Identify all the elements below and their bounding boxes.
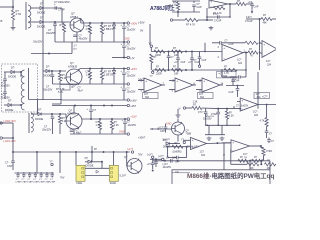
svg-text:33u/25V: 33u/25V bbox=[42, 129, 52, 132]
svg-text:10u/25V: 10u/25V bbox=[163, 167, 172, 169]
wire D2 to Q1 bbox=[43, 21, 70, 23]
svg-text:(+)Y?: (+)Y? bbox=[158, 156, 164, 158]
svg-text:?0V: ?0V bbox=[60, 176, 65, 179]
junction br bbox=[260, 163, 262, 165]
junction D6 out a bbox=[51, 70, 53, 72]
capacitor bank C17 bbox=[33, 172, 39, 183]
svg-text:C?0R: C?0R bbox=[266, 151, 272, 153]
capacitor C24 CAP top bbox=[220, 40, 234, 46]
junction bus3 a bbox=[90, 118, 92, 120]
junction bus2 c bbox=[113, 68, 115, 70]
svg-text:DIODE: DIODE bbox=[37, 10, 45, 14]
terminal -30V bottom bbox=[0, 137, 16, 143]
capacitor C23 CAP bbox=[188, 51, 200, 72]
wire Q5 collector bbox=[177, 119, 179, 123]
wire T3 tap bbox=[31, 113, 38, 115]
svg-text:C?AP: C?AP bbox=[211, 113, 217, 116]
svg-text:DIODE: DIODE bbox=[86, 165, 94, 168]
capacitor bank C15 bbox=[21, 172, 27, 183]
transistor Q2 A788J bbox=[66, 61, 82, 85]
resistor R23 1.3K bbox=[186, 101, 202, 110]
resistor R19 10R bbox=[172, 65, 183, 75]
wire U9 out bbox=[250, 145, 263, 147]
svg-text:+: + bbox=[203, 79, 205, 83]
svg-text:DIODE: DIODE bbox=[5, 108, 13, 112]
resistor R28 10K bbox=[247, 161, 259, 170]
dashed module box 1 bbox=[2, 64, 38, 112]
feedback left bbox=[206, 8, 208, 17]
wire long right vertical bbox=[257, 72, 259, 109]
svg-text:B: B bbox=[1, 19, 3, 23]
wire feedback bottom bbox=[207, 16, 230, 18]
svg-text:+: + bbox=[176, 79, 178, 83]
resistor R26 100R bbox=[172, 143, 183, 153]
resistor R30 bbox=[238, 157, 248, 162]
capacitor C36 CAP bbox=[164, 157, 179, 163]
label +30V right bbox=[138, 136, 146, 139]
junction bus3 c bbox=[111, 118, 113, 120]
svg-text:(+)Y?: (+)Y? bbox=[147, 155, 153, 157]
label 5.06V bbox=[163, 140, 171, 142]
wire U8 minus row bbox=[166, 146, 191, 147]
diode D11 small bbox=[85, 170, 109, 175]
svg-text:D?: D? bbox=[11, 66, 15, 70]
svg-text:33u/25V: 33u/25V bbox=[33, 41, 43, 44]
wire bottom bus left bbox=[13, 151, 130, 153]
terminal V- bbox=[179, 106, 186, 110]
capacitor C30 10u/25V bbox=[234, 105, 249, 108]
label U3 bbox=[266, 60, 272, 66]
svg-text:A788J5: A788J5 bbox=[68, 65, 78, 69]
svg-text:+15?: +15? bbox=[130, 104, 136, 108]
svg-text:CAP: CAP bbox=[229, 91, 234, 94]
junction blb1 bbox=[36, 151, 38, 153]
svg-text:+C?: +C? bbox=[248, 1, 253, 4]
wire ch3 box top bbox=[29, 100, 63, 115]
svg-text:49u?: 49u? bbox=[76, 131, 82, 134]
terminal y57 bbox=[127, 56, 135, 60]
diode D4 bbox=[8, 66, 16, 79]
transistor Q5 bbox=[172, 122, 192, 135]
resistor R31 bbox=[252, 157, 262, 162]
svg-text:+C?: +C? bbox=[147, 164, 152, 166]
svg-text:−: − bbox=[203, 88, 205, 92]
capacitor C32 CAP bbox=[158, 124, 168, 133]
junction D2 out bbox=[54, 21, 56, 23]
svg-text:33u/25V: 33u/25V bbox=[43, 89, 53, 92]
junction par bbox=[177, 11, 179, 17]
resistor R9 1.3K bbox=[96, 119, 102, 134]
svg-text:33u/25V: 33u/25V bbox=[203, 119, 212, 121]
svg-text:(-)CD(-30V: (-)CD(-30V bbox=[3, 139, 16, 143]
svg-text:+C?: +C? bbox=[188, 62, 193, 64]
capacitor bank C18 bbox=[39, 172, 45, 183]
wire center left bbox=[150, 128, 172, 129]
junction lad b bbox=[185, 51, 187, 53]
capacitor C9 on Q2 emitter bbox=[78, 86, 84, 92]
svg-text:C?AP: C?AP bbox=[58, 8, 65, 12]
wire module1 output bbox=[0, 122, 13, 124]
svg-text:−: − bbox=[176, 88, 178, 92]
svg-text:33u/25V: 33u/25V bbox=[46, 31, 56, 35]
boxed label C CAP bbox=[217, 72, 237, 79]
junction bus2 d bbox=[123, 68, 125, 70]
wire U8 plus in bbox=[183, 139, 191, 141]
wire between connectors top bbox=[85, 167, 109, 169]
junction bus1 a bbox=[89, 22, 91, 24]
capacitor C17 CAP bbox=[192, 1, 202, 12]
op-amp U8 324 bbox=[191, 138, 207, 157]
resistor R24 1.3K bbox=[225, 109, 234, 126]
transformer T3 winding bbox=[29, 113, 33, 133]
svg-text:C?AP: C?AP bbox=[221, 75, 228, 78]
junction bus2 b bbox=[101, 68, 103, 70]
junction bus1 c bbox=[113, 22, 115, 24]
svg-text:+C??: +C?? bbox=[262, 96, 268, 98]
connector J1 FAN1 bbox=[76, 165, 85, 185]
diode D6 bbox=[43, 65, 51, 78]
svg-text:49u?: 49u? bbox=[78, 89, 84, 92]
label GND red bbox=[166, 122, 172, 125]
wire u3 vertical bbox=[259, 53, 261, 71]
bus +15V channel 2 bbox=[78, 69, 127, 71]
resistor R7 1.3K bbox=[100, 69, 109, 85]
junction bus3 b bbox=[99, 118, 101, 120]
junction lad d bbox=[185, 69, 187, 71]
junction bus1 d bbox=[123, 22, 125, 24]
svg-text:1.3K: 1.3K bbox=[193, 101, 198, 104]
capacitor C10b bbox=[87, 106, 97, 120]
svg-text:+15V: +15V bbox=[130, 115, 137, 119]
svg-text:7.5V: 7.5V bbox=[108, 74, 113, 77]
capacitor C8 10u/25V bbox=[121, 69, 136, 85]
svg-text:1?C?: 1?C? bbox=[213, 14, 219, 16]
wire drop diode feed bbox=[91, 152, 93, 162]
wire U1 out bbox=[228, 3, 236, 5]
wire section divider bbox=[42, 0, 44, 100]
svg-text:0V: 0V bbox=[140, 28, 143, 32]
svg-text:−: − bbox=[192, 146, 194, 150]
svg-text:?06B: ?06B bbox=[186, 132, 192, 135]
wire U2 out bbox=[243, 52, 248, 54]
capacitor C27 CAP bbox=[229, 86, 240, 98]
svg-text:−: − bbox=[210, 4, 212, 8]
transformer T1 primary line bbox=[25, 2, 27, 30]
svg-text:1C?: 1C? bbox=[199, 94, 204, 96]
svg-text:324: 324 bbox=[254, 114, 259, 117]
capacitor bank C19 bbox=[44, 172, 50, 183]
label 0V mid bbox=[140, 28, 143, 32]
resistor R5 1.2K bbox=[58, 71, 67, 84]
wire U7 inputs bbox=[237, 102, 240, 109]
terminal +30V bbox=[127, 21, 137, 25]
svg-text:220R: 220R bbox=[156, 72, 162, 75]
resistor R13 4.7K feedback bbox=[213, 6, 225, 14]
junction bus1 b bbox=[101, 22, 103, 24]
wire U8 out bbox=[207, 142, 232, 144]
transistor Q4 bbox=[120, 156, 143, 177]
svg-text:CAP: CAP bbox=[7, 164, 13, 168]
wire box right drop bbox=[269, 161, 271, 170]
junction mrb c bbox=[239, 108, 241, 110]
junction u3 in1 bbox=[259, 52, 260, 53]
module box bottom bbox=[172, 170, 270, 185]
terminal GND2 bbox=[127, 83, 129, 85]
terminal GND3 bbox=[119, 131, 130, 136]
watermark text bbox=[187, 171, 274, 180]
svg-text:DIODE: DIODE bbox=[37, 24, 45, 28]
resistor R6 1.3K bbox=[86, 69, 92, 85]
label 49u bbox=[187, 147, 200, 149]
wire drop to cap rail b bbox=[59, 152, 61, 173]
zener D7 bbox=[108, 69, 116, 85]
svg-text:(+)5V: (+)5V bbox=[130, 98, 137, 102]
capacitor bank rail bbox=[15, 172, 55, 174]
capacitor C2 33u/25V bbox=[33, 22, 57, 44]
ground rail channel 3 bbox=[70, 133, 127, 135]
wire C1 down bbox=[61, 8, 63, 23]
wire Q5 emitter bbox=[177, 135, 179, 142]
capacitor C28 bbox=[198, 108, 215, 125]
resistor R18 220R bbox=[155, 65, 166, 75]
svg-text:DIODE: DIODE bbox=[43, 74, 51, 78]
junction conn bus e bbox=[126, 151, 128, 153]
resistor R22 bbox=[248, 48, 258, 57]
capacitor C20 label bbox=[245, 16, 253, 23]
svg-text:M866维-电路图纸的PW电工qq: M866维-电路图纸的PW电工qq bbox=[187, 171, 274, 180]
svg-text:1?C?: 1?C? bbox=[198, 112, 204, 114]
bus +30V channel 1 bbox=[81, 22, 127, 24]
svg-text:R? 4.7K: R? 4.7K bbox=[186, 23, 195, 26]
zener D3 5.1V bbox=[108, 23, 116, 42]
svg-text:1.5K: 1.5K bbox=[86, 28, 91, 31]
svg-text:R?: R? bbox=[60, 23, 64, 27]
svg-text:(-)V: (-)V bbox=[130, 56, 135, 60]
svg-text:GND: GND bbox=[119, 131, 125, 134]
resistor R3 1.5K bbox=[86, 23, 92, 42]
wire T1 bottom tap bbox=[30, 21, 40, 23]
op-amp U9 324 bbox=[231, 140, 250, 160]
wire input row right bbox=[218, 108, 240, 110]
label -30V row bbox=[138, 78, 144, 81]
capacitor C10 33u/25V bbox=[42, 114, 54, 134]
junction r19 bbox=[259, 18, 261, 20]
svg-text:5.1V: 5.1V bbox=[58, 91, 63, 94]
wire input top-left bbox=[0, 6, 13, 8]
resistor R1 4.7R bbox=[11, 9, 21, 20]
label c right bbox=[262, 96, 268, 98]
diode D1 bbox=[37, 2, 45, 15]
svg-text:FAN2: FAN2 bbox=[110, 182, 117, 184]
svg-text:D?: D? bbox=[8, 99, 12, 103]
wire row 42 bbox=[245, 41, 260, 44]
ground below R1 bbox=[11, 26, 16, 30]
terminal Y mid bbox=[181, 139, 186, 143]
svg-text:CAP: CAP bbox=[181, 61, 186, 64]
label box row 2 bbox=[198, 93, 214, 99]
label 0V bottom bbox=[60, 176, 65, 179]
ladder wire top bbox=[151, 51, 222, 53]
svg-text:FAN1: FAN1 bbox=[77, 182, 84, 184]
svg-text:1.3K: 1.3K bbox=[229, 115, 234, 117]
rail y53 bbox=[31, 42, 77, 55]
svg-text:10u/25V: 10u/25V bbox=[127, 48, 136, 51]
junction conn bus c bbox=[103, 151, 105, 153]
svg-text:1C?: 1C? bbox=[144, 94, 149, 96]
capacitor C37 bbox=[147, 161, 155, 172]
svg-text:+15V: +15V bbox=[130, 67, 137, 71]
svg-text:CAP: CAP bbox=[229, 43, 234, 46]
op-amp U3 324 bbox=[260, 41, 278, 58]
junction y106 c bbox=[111, 105, 113, 107]
wire parallel bottom bbox=[172, 11, 200, 13]
small box ch2 bbox=[52, 85, 70, 105]
junction conn bus a bbox=[75, 151, 77, 153]
svg-text:A788J: A788J bbox=[70, 15, 78, 19]
terminal ladder bottom bbox=[150, 70, 154, 78]
top rail mid bbox=[172, 0, 200, 2]
wire cap row bbox=[212, 42, 245, 44]
wire long vertical right bbox=[259, 19, 261, 52]
svg-text:324: 324 bbox=[238, 62, 243, 65]
wire bottom-left vertical bbox=[12, 123, 14, 161]
node label B bbox=[1, 19, 3, 23]
svg-text:10R: 10R bbox=[174, 72, 179, 75]
capacitor C31 104 bbox=[265, 131, 273, 138]
resistor R27 470R bbox=[261, 146, 272, 164]
capacitor C23b CAP bbox=[194, 52, 207, 68]
transformer T1 secondary winding bbox=[28, 5, 31, 28]
svg-text:33u/25V: 33u/25V bbox=[1, 85, 11, 88]
svg-text:36A: 36A bbox=[257, 96, 262, 99]
junction D8 out a bbox=[51, 113, 53, 115]
svg-text:4.7K: 4.7K bbox=[260, 119, 265, 122]
resistor R17 10R bbox=[172, 47, 183, 57]
wire D1 to C1 bbox=[43, 7, 62, 9]
rail -15V ch2 bbox=[62, 99, 127, 101]
resistor R2 bbox=[60, 22, 66, 42]
wire vmr bbox=[202, 107, 218, 110]
transistor Q1 A788J bbox=[70, 12, 84, 32]
wire resistor to ground bbox=[12, 20, 14, 26]
svg-text:−: − bbox=[263, 53, 265, 57]
terminal y106 bbox=[127, 104, 136, 108]
svg-text:D?: D? bbox=[38, 108, 42, 112]
junction mid a bbox=[206, 17, 208, 21]
svg-text:+: + bbox=[223, 46, 225, 50]
svg-text:(-)C?: (-)C? bbox=[163, 164, 169, 166]
terminal Y+ bottom bbox=[127, 148, 134, 153]
svg-text:324: 324 bbox=[201, 154, 206, 157]
svg-text:5.1V: 5.1V bbox=[108, 28, 113, 31]
terminal bottom mid bbox=[147, 155, 154, 161]
wire right row19 bbox=[246, 18, 261, 20]
svg-text:(1M0R0): (1M0R0) bbox=[173, 151, 182, 153]
capacitor C34 10u/25V bbox=[154, 159, 171, 169]
wire U7 out bbox=[258, 104, 276, 106]
svg-text:4.7K: 4.7K bbox=[172, 4, 177, 7]
svg-text:5.2V?: 5.2V? bbox=[120, 175, 127, 178]
label -30V mid bbox=[138, 20, 145, 24]
terminal input mid bbox=[170, 19, 185, 21]
row 164 wire bbox=[231, 163, 247, 165]
wire D8 to Q3 bbox=[41, 114, 66, 118]
svg-text:4.7R: 4.7R bbox=[16, 12, 22, 16]
label -30V output bbox=[3, 119, 16, 123]
diode D5 bbox=[4, 99, 13, 112]
svg-text:324: 324 bbox=[267, 63, 272, 66]
wire mid left vertical bbox=[149, 24, 151, 45]
junction bl bbox=[12, 151, 14, 153]
bus +15V channel 3 bbox=[82, 118, 127, 120]
capacitor bank C16 bbox=[27, 172, 33, 183]
terminal +15V ch3 bbox=[127, 115, 137, 121]
row y106 bbox=[52, 105, 127, 107]
svg-text:CAP: CAP bbox=[172, 157, 177, 160]
capacitor C22 CAP bbox=[174, 51, 186, 72]
terminal +15V ch2 bbox=[127, 67, 137, 71]
wire box drop bbox=[249, 161, 251, 170]
arrow symbol down bbox=[251, 9, 253, 14]
svg-text:D?: D? bbox=[46, 65, 50, 69]
label ch2 box bbox=[56, 86, 75, 94]
label U2 bbox=[237, 58, 243, 64]
capacitor bank C20 bbox=[50, 172, 56, 183]
wire drop connector 1 bbox=[75, 152, 77, 165]
svg-text:1.3K: 1.3K bbox=[114, 124, 119, 127]
svg-text:+: + bbox=[145, 79, 147, 83]
capacitor C1b mid bbox=[121, 41, 136, 58]
wire U7 out down bbox=[266, 105, 268, 118]
junction node top-left bbox=[12, 0, 14, 10]
svg-text:+: + bbox=[241, 99, 243, 103]
svg-text:−: − bbox=[241, 107, 243, 111]
junction bus3 d bbox=[124, 118, 126, 120]
transformer T2 winding upper bbox=[21, 68, 28, 110]
diode D10 DIODE bbox=[85, 157, 102, 168]
junction blb2 bbox=[59, 151, 61, 153]
svg-text:10u/25V: 10u/25V bbox=[127, 91, 136, 94]
junction D8 out b bbox=[59, 113, 61, 115]
resistor R4 1.5K bbox=[100, 23, 109, 42]
svg-text:+: + bbox=[232, 140, 234, 144]
svg-text:V-: V- bbox=[179, 106, 182, 110]
svg-text:A788J5: A788J5 bbox=[67, 112, 76, 116]
svg-text:CAP: CAP bbox=[254, 5, 259, 8]
svg-text:?K: ?K bbox=[250, 54, 253, 57]
junction mrb a bbox=[217, 108, 219, 110]
svg-text:CAP: CAP bbox=[197, 6, 202, 9]
wire R12 to junction bbox=[198, 19, 213, 21]
wire drop connector 2 bbox=[113, 152, 115, 165]
svg-text:CAP: CAP bbox=[202, 59, 207, 62]
op-amp U2 324 bbox=[218, 45, 246, 62]
svg-text:(-30V: (-30V bbox=[138, 20, 145, 24]
svg-text:C?AP: C?AP bbox=[50, 181, 56, 184]
svg-text:GND: GND bbox=[124, 37, 130, 40]
diode D2 bbox=[37, 16, 45, 29]
resistor R16 220R bbox=[154, 47, 165, 57]
capacitor C3 10u/25V bbox=[121, 23, 136, 42]
label 0V right2 bbox=[138, 153, 143, 156]
capacitor C13 CAP bbox=[5, 160, 15, 170]
wire winding taps ch2 bbox=[11, 72, 21, 105]
svg-text:GND: GND bbox=[166, 122, 172, 125]
junction fb b bbox=[229, 16, 230, 17]
op-amp U6 324 bbox=[196, 78, 224, 92]
ground mid2 bbox=[209, 26, 214, 30]
wire T1 top tap bbox=[30, 7, 40, 9]
